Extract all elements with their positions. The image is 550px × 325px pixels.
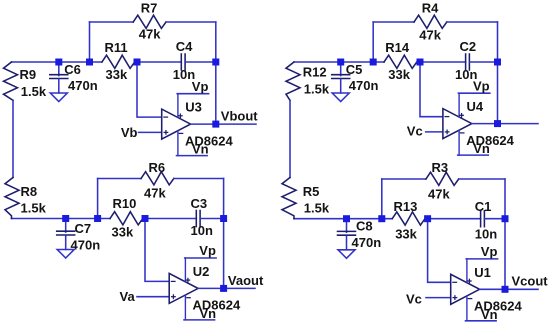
wire U4 output <box>472 123 538 125</box>
node R10 output junction <box>142 215 149 222</box>
svg-text:47k: 47k <box>419 28 441 43</box>
capacitor C6 <box>50 74 68 76</box>
svg-text:Vp: Vp <box>473 78 490 93</box>
wire feedback left drop <box>89 22 91 62</box>
wire C7 to ground <box>65 236 67 250</box>
node R11 output junction <box>134 59 141 66</box>
svg-text:1.5k: 1.5k <box>21 201 47 216</box>
wire C8 to ground <box>346 236 348 250</box>
svg-text:470n: 470n <box>71 238 101 253</box>
wire Vp stub of U4 <box>458 92 489 94</box>
capacitor C5 lead <box>340 62 342 76</box>
svg-text:AD8624: AD8624 <box>185 133 233 148</box>
ground <box>332 93 349 102</box>
svg-text:33k: 33k <box>106 67 128 82</box>
svg-text:R4: R4 <box>422 0 439 15</box>
capacitor C3 <box>195 211 197 227</box>
node R13 output junction <box>424 215 431 222</box>
node C3 right junction <box>220 215 227 222</box>
ground <box>338 250 355 258</box>
wire top feedback right <box>459 178 505 180</box>
svg-text:U3: U3 <box>185 100 202 115</box>
node U1 output junction <box>502 286 509 293</box>
node feedback drop junction <box>370 59 377 66</box>
wire R10 to C3 <box>143 218 197 220</box>
wire feedback left drop <box>97 179 99 219</box>
node R14 output junction <box>417 59 424 66</box>
svg-text:Va: Va <box>120 289 136 304</box>
capacitor C8 lead <box>346 219 348 233</box>
svg-text:C5: C5 <box>346 62 363 77</box>
svg-text:Vc: Vc <box>407 123 423 138</box>
svg-text:Vp: Vp <box>192 79 209 94</box>
svg-text:U1: U1 <box>474 265 491 280</box>
node C4 right junction <box>212 59 219 66</box>
wire C6 to ground <box>58 79 60 93</box>
svg-text:R9: R9 <box>20 67 37 82</box>
wire C2 to node <box>469 61 497 63</box>
svg-text:10n: 10n <box>475 227 497 242</box>
wire Vp stub of U3 <box>177 93 208 95</box>
svg-text:33k: 33k <box>112 225 134 240</box>
wire Vn stub of U3 <box>177 155 208 157</box>
wire inverting input drop <box>420 62 443 117</box>
node C1 right junction <box>502 215 509 222</box>
svg-text:C8: C8 <box>356 219 373 234</box>
wire feedback right vertical <box>215 22 217 124</box>
node feedback drop junction <box>86 59 93 66</box>
svg-text:C2: C2 <box>460 39 477 54</box>
ground <box>50 93 67 102</box>
resistor R14 <box>384 55 417 68</box>
svg-text:47k: 47k <box>139 26 161 41</box>
wire U2 output <box>198 287 255 289</box>
svg-text:Vaout: Vaout <box>228 273 264 288</box>
wire top feedback left (block U4) <box>373 21 414 23</box>
capacitor C2 <box>465 54 467 70</box>
resistor R9 <box>4 62 18 100</box>
wire Vb input <box>139 131 162 133</box>
wire Vn stub of U1 <box>466 320 497 322</box>
wire feedback right vertical <box>497 22 499 124</box>
svg-text:R8: R8 <box>21 184 38 199</box>
svg-text:1.5k: 1.5k <box>304 82 330 97</box>
resistor R7 <box>133 15 166 28</box>
wire left column R12 to R5 <box>289 100 291 177</box>
svg-text:470n: 470n <box>352 235 382 250</box>
resistor R8 <box>5 178 19 219</box>
svg-text:R11: R11 <box>105 40 128 55</box>
op-amp U1 (AD8624) <box>451 259 480 321</box>
capacitor C5 <box>332 74 350 76</box>
capacitor C4 <box>180 54 182 70</box>
node U3 output junction <box>212 121 219 128</box>
wire Vc input <box>426 297 451 299</box>
svg-text:Vbout: Vbout <box>221 109 258 124</box>
node C8 junction <box>343 215 350 222</box>
resistor R10 <box>110 212 143 225</box>
wire U3 output <box>191 123 256 125</box>
wire C3 to node <box>200 218 224 220</box>
wire Vc input <box>426 131 443 133</box>
wire R11 to C4 <box>135 61 182 63</box>
wire inverting input drop <box>137 62 162 117</box>
op-amp U3 (AD8624) <box>162 94 191 156</box>
wire Vp stub of U1 <box>466 258 497 260</box>
svg-text:R14: R14 <box>385 40 410 55</box>
wire feedback left drop <box>372 22 374 62</box>
wire feedback right vertical <box>223 179 225 289</box>
capacitor C1 <box>480 211 482 227</box>
wire feedback left drop <box>381 179 383 219</box>
svg-text:R5: R5 <box>303 184 320 199</box>
svg-text:R13: R13 <box>394 199 418 214</box>
svg-text:R3: R3 <box>432 160 449 175</box>
resistor R6 <box>141 172 174 185</box>
wire row R8 to R10 <box>12 218 111 220</box>
svg-text:33k: 33k <box>388 67 410 82</box>
resistor R12 <box>286 62 300 100</box>
svg-text:C3: C3 <box>191 196 208 211</box>
wire row R12 to R14 <box>294 61 384 63</box>
resistor R5 <box>282 178 296 219</box>
node feedback drop junction <box>378 215 385 222</box>
wire top feedback right <box>447 21 498 23</box>
node C6 junction <box>55 59 62 66</box>
wire top feedback left (block U3) <box>90 21 134 23</box>
svg-text:U2: U2 <box>193 264 210 279</box>
node C7 junction <box>62 215 69 222</box>
capacitor C8 <box>338 230 356 232</box>
svg-text:1.5k: 1.5k <box>304 201 330 216</box>
svg-text:47k: 47k <box>428 187 450 202</box>
resistor R11 <box>102 55 135 68</box>
wire U1 output <box>480 288 538 290</box>
svg-text:AD8624: AD8624 <box>466 133 514 148</box>
resistor R3 <box>426 172 459 185</box>
svg-text:C7: C7 <box>75 221 92 236</box>
op-amp U2 (AD8624) <box>169 258 198 320</box>
svg-text:R7: R7 <box>141 0 158 15</box>
svg-text:Vc: Vc <box>406 292 422 307</box>
wire Vn stub of U2 <box>184 319 215 321</box>
svg-text:Vb: Vb <box>121 125 138 140</box>
node C5 junction <box>337 59 344 66</box>
node feedback drop junction <box>94 215 101 222</box>
resistor R13 <box>392 212 425 225</box>
wire top feedback right <box>166 21 216 23</box>
capacitor C7 lead <box>65 219 67 233</box>
svg-text:470n: 470n <box>68 78 98 93</box>
ground <box>57 250 74 259</box>
wire left column R9 to R8 <box>12 100 14 177</box>
wire R13 to C1 <box>425 218 481 220</box>
wire row R9 to R11 <box>12 61 102 63</box>
node U2 output junction <box>220 285 227 292</box>
wire C4 to node <box>185 61 216 63</box>
wire row R5 to R13 <box>294 218 392 220</box>
node C2 right junction <box>494 59 501 66</box>
svg-text:R12: R12 <box>303 64 327 79</box>
svg-text:1.5k: 1.5k <box>21 84 47 99</box>
node U4 output junction <box>494 120 501 127</box>
svg-text:10n: 10n <box>191 223 213 238</box>
svg-text:R6: R6 <box>149 160 166 175</box>
wire C1 to node <box>484 218 505 220</box>
svg-text:R10: R10 <box>113 196 137 211</box>
svg-text:47k: 47k <box>144 186 166 201</box>
wire top feedback left (block U1) <box>382 178 426 180</box>
svg-text:AD8624: AD8624 <box>474 299 522 314</box>
svg-text:AD8624: AD8624 <box>193 298 241 313</box>
svg-text:33k: 33k <box>395 227 417 242</box>
svg-text:U4: U4 <box>467 99 484 114</box>
wire Vp stub of U2 <box>185 257 216 259</box>
svg-text:C6: C6 <box>64 62 81 77</box>
wire R14 to C2 <box>417 61 466 63</box>
svg-text:Vcout: Vcout <box>512 273 549 288</box>
wire Va input <box>137 296 169 298</box>
svg-text:C1: C1 <box>475 199 492 214</box>
wire inverting input drop <box>428 219 451 283</box>
svg-text:Vp: Vp <box>481 244 498 259</box>
wire Vn stub of U4 <box>458 154 489 156</box>
wire top feedback left (block U2) <box>98 178 141 180</box>
resistor R4 <box>414 15 447 28</box>
capacitor C7 <box>57 230 75 232</box>
op-amp U4 (AD8624) <box>443 93 472 155</box>
wire C5 to ground <box>340 79 342 93</box>
svg-text:Vp: Vp <box>199 243 216 258</box>
wire top feedback right <box>174 178 224 180</box>
wire feedback right vertical <box>504 179 506 289</box>
capacitor C6 lead <box>58 62 60 76</box>
wire inverting input drop <box>145 219 169 282</box>
svg-text:470n: 470n <box>349 78 379 93</box>
svg-text:C4: C4 <box>176 39 193 54</box>
